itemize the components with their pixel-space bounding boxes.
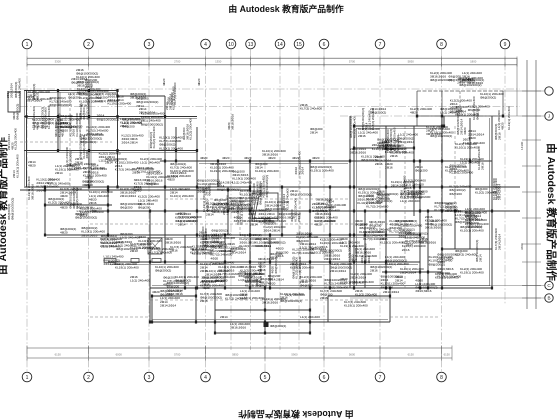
svg-text:2: 2 xyxy=(87,42,90,48)
svg-text:KL19(1) 200x400: KL19(1) 200x400 xyxy=(15,154,19,178)
wall inner line y285.5 xyxy=(152,285,490,287)
beam annotation xyxy=(475,187,497,195)
beam vertical x282 xyxy=(281,187,283,235)
wall inner line y128.5 xyxy=(356,128,444,130)
column at (350,187) xyxy=(349,186,351,189)
svg-text:Φ8@100/200(2): Φ8@100/200(2) xyxy=(10,198,14,220)
beam annotation xyxy=(68,112,82,136)
beam vertical x354 xyxy=(353,126,355,288)
svg-text:2Φ14;2Φ14: 2Φ14;2Φ14 xyxy=(398,140,414,144)
beam annotation xyxy=(203,233,227,248)
svg-text:Φ6@200: Φ6@200 xyxy=(120,206,133,210)
beam annotation xyxy=(262,297,286,305)
column at (176,161) xyxy=(175,160,177,163)
stair landing beam xyxy=(252,218,278,220)
beam annotation xyxy=(206,202,230,217)
wall far-right vertical strip xyxy=(526,60,528,309)
beam annotation xyxy=(437,253,459,264)
column at (228,211) xyxy=(227,210,229,213)
beam annotation xyxy=(229,196,253,211)
column at (414,161) xyxy=(413,160,415,163)
beam horizontal y211 xyxy=(90,210,520,212)
beam annotation xyxy=(85,78,109,93)
svg-text:2Φ16: 2Φ16 xyxy=(375,162,383,166)
grid bubble axis 6 bottom xyxy=(319,372,329,382)
svg-text:2Φ16: 2Φ16 xyxy=(367,255,371,263)
beam annotation xyxy=(54,113,65,137)
svg-text:3Φ16;3Φ16: 3Φ16;3Φ16 xyxy=(68,150,72,166)
svg-text:KL19(1) 200x400: KL19(1) 200x400 xyxy=(434,208,458,212)
column at (420,211) xyxy=(419,210,421,213)
wall inner line y92.5 xyxy=(26,92,117,94)
beam vertical x390 xyxy=(389,288,391,322)
beam annotation xyxy=(350,272,372,280)
svg-text:2Φ14;2Φ14: 2Φ14;2Φ14 xyxy=(122,141,138,145)
grid bubble axis 4 bottom xyxy=(201,372,211,382)
beam annotation xyxy=(459,76,483,87)
beam annotation xyxy=(217,180,239,191)
svg-text:2Φ14;2Φ14: 2Φ14;2Φ14 xyxy=(383,290,399,294)
svg-text:Φ6@200: Φ6@200 xyxy=(468,108,481,112)
svg-text:2Φ14;2Φ14: 2Φ14;2Φ14 xyxy=(354,246,358,262)
grid bubble axis 2 bottom xyxy=(84,372,94,382)
svg-text:L1(1) 240x400: L1(1) 240x400 xyxy=(140,161,160,165)
beam annotation xyxy=(170,162,194,173)
beam vertical x225 xyxy=(224,235,226,288)
beam annotation xyxy=(472,96,479,120)
beam annotation xyxy=(245,280,267,288)
svg-text:2Φ14: 2Φ14 xyxy=(263,244,271,248)
svg-text:KL19(1) 200x400: KL19(1) 200x400 xyxy=(507,106,511,130)
svg-text:KL10(1) 200x400: KL10(1) 200x400 xyxy=(455,146,479,150)
beam annotation xyxy=(211,229,235,244)
svg-text:3Φ16;3Φ16: 3Φ16;3Φ16 xyxy=(426,132,442,136)
column at (225,288) xyxy=(224,287,226,290)
beam annotation xyxy=(377,138,399,149)
column at (386,262) xyxy=(385,261,387,264)
svg-text:KL2(2) 200x400: KL2(2) 200x400 xyxy=(189,118,193,140)
beam annotation xyxy=(445,202,461,213)
beam annotation xyxy=(381,275,405,290)
svg-text:15: 15 xyxy=(296,42,302,48)
beam annotation xyxy=(457,77,473,85)
dimension line top xyxy=(27,57,517,59)
beam annotation xyxy=(75,157,83,165)
beam annotation xyxy=(380,237,404,245)
wall inner line y319.5 xyxy=(152,319,388,321)
beam annotation xyxy=(455,209,477,224)
beam annotation xyxy=(201,226,208,250)
grid bubble axis J right xyxy=(545,112,553,120)
column at (442,187) xyxy=(441,186,443,189)
beam annotation xyxy=(296,232,318,243)
wall inner line y118.5 xyxy=(26,118,197,120)
svg-text:KL7(3) 240x600: KL7(3) 240x600 xyxy=(214,202,236,206)
beam annotation xyxy=(146,171,170,186)
svg-text:KL7(3) 240x600: KL7(3) 240x600 xyxy=(300,107,322,111)
beam annotation xyxy=(122,133,144,144)
svg-text:2Φ14;2Φ14: 2Φ14;2Φ14 xyxy=(160,304,176,308)
svg-text:4Φ20: 4Φ20 xyxy=(152,290,160,294)
beam annotation xyxy=(248,209,270,220)
column at (492,211) xyxy=(491,210,493,213)
beam annotation xyxy=(300,275,322,283)
beam annotation xyxy=(250,219,274,227)
svg-text:2Φ16: 2Φ16 xyxy=(480,162,484,170)
secondary beam dashed x300 xyxy=(299,161,301,288)
svg-text:2Φ14: 2Φ14 xyxy=(478,254,482,262)
secondary beam dashed x70 xyxy=(69,88,71,187)
svg-text:4Φ20: 4Φ20 xyxy=(200,156,208,160)
column at (354,126) xyxy=(353,125,355,128)
svg-text:KL2(2) 200x400: KL2(2) 200x400 xyxy=(75,187,79,209)
beam annotation xyxy=(271,257,278,273)
svg-text:2Φ16: 2Φ16 xyxy=(200,299,208,303)
axis line 15 xyxy=(298,49,300,350)
column at (250,190) xyxy=(249,189,251,192)
beam horizontal y161 xyxy=(160,160,492,162)
beam annotation xyxy=(50,96,72,107)
beam annotation xyxy=(450,99,472,114)
svg-text:4Φ20: 4Φ20 xyxy=(85,183,93,187)
svg-text:4Φ20: 4Φ20 xyxy=(268,156,276,160)
beam annotation xyxy=(215,275,235,283)
grid bubble axis 3 top xyxy=(144,39,154,49)
annotation left edge xyxy=(6,83,13,98)
beam annotation xyxy=(210,245,232,256)
beam annotation xyxy=(292,248,314,256)
svg-text:6150: 6150 xyxy=(408,352,415,356)
beam annotation xyxy=(468,129,484,140)
column at (185,288) xyxy=(184,287,186,290)
beam annotation xyxy=(314,215,338,226)
svg-text:4Φ20: 4Φ20 xyxy=(437,260,445,264)
beam annotation xyxy=(192,244,216,255)
column at (197,262) xyxy=(196,261,198,264)
beam annotation xyxy=(101,234,121,249)
beam annotation xyxy=(385,255,409,266)
beam annotation xyxy=(60,227,76,235)
beam horizontal y310 xyxy=(215,309,310,311)
beam annotation xyxy=(358,187,382,198)
beam annotation xyxy=(445,165,469,173)
beam annotation xyxy=(83,166,107,177)
beam annotation xyxy=(466,217,482,228)
beam annotation xyxy=(370,265,392,273)
svg-text:2Φ14;2Φ14: 2Φ14;2Φ14 xyxy=(497,234,501,250)
svg-text:2Φ16: 2Φ16 xyxy=(358,134,366,138)
beam annotation xyxy=(239,233,263,248)
column at (165,116.5) xyxy=(164,115,166,118)
beam annotation xyxy=(150,247,174,255)
svg-text:Φ6@200: Φ6@200 xyxy=(381,285,394,289)
beam annotation xyxy=(480,92,504,100)
grid bubble axis C right xyxy=(545,281,553,289)
svg-text:10: 10 xyxy=(228,42,234,48)
column at (197,150.5) xyxy=(196,149,198,152)
column at (354,288) xyxy=(353,287,355,290)
beam vertical x310 xyxy=(309,161,311,333)
beam annotation xyxy=(350,280,374,284)
svg-text:Φ8@100/200(2): Φ8@100/200(2) xyxy=(459,83,481,87)
column at (428,211) xyxy=(427,210,429,213)
column at (108,187) xyxy=(107,186,109,189)
column at (365,262) xyxy=(364,261,366,264)
svg-text:Φ6@200: Φ6@200 xyxy=(449,192,462,196)
column at (117.5,90.5) xyxy=(116,89,118,92)
beam vertical x197 xyxy=(196,127,198,288)
column at (428,288) xyxy=(427,287,429,290)
axis line 3 xyxy=(148,49,150,372)
beam annotation xyxy=(404,179,428,194)
beam annotation xyxy=(460,267,484,275)
beam annotation xyxy=(138,235,162,250)
beam annotation xyxy=(211,257,235,265)
svg-text:KL10(1) 200x400: KL10(1) 200x400 xyxy=(359,230,383,234)
beam annotation xyxy=(324,278,348,289)
svg-text:KL19(1) 200x400: KL19(1) 200x400 xyxy=(344,304,368,308)
beam annotation xyxy=(312,202,334,213)
beam annotation xyxy=(240,265,264,276)
beam annotation xyxy=(108,94,132,105)
svg-text:KL19(1) 200x400: KL19(1) 200x400 xyxy=(450,171,474,175)
beam horizontal y262 xyxy=(108,261,420,263)
svg-text:KL10(1) 200x400: KL10(1) 200x400 xyxy=(211,260,235,264)
svg-text:2Φ14: 2Φ14 xyxy=(297,214,301,222)
column at (250,187) xyxy=(249,186,251,189)
column at (108,190) xyxy=(107,189,109,192)
svg-text:KL2(2) 200x400: KL2(2) 200x400 xyxy=(138,246,160,250)
beam annotation xyxy=(415,165,428,173)
column at (310,161) xyxy=(309,160,311,163)
svg-text:2Φ14: 2Φ14 xyxy=(178,222,186,226)
beam annotation xyxy=(359,223,383,234)
beam annotation xyxy=(386,127,400,151)
beam annotation xyxy=(100,237,124,248)
column at (386,187) xyxy=(385,186,387,189)
beam annotation xyxy=(382,140,404,151)
svg-text:2Φ14;2Φ14: 2Φ14;2Φ14 xyxy=(26,98,42,102)
grid bubble axis 14 top xyxy=(275,39,285,49)
column at (108,235) xyxy=(107,234,109,237)
beam annotation xyxy=(415,278,437,293)
svg-text:6150: 6150 xyxy=(55,352,62,356)
beam annotation xyxy=(310,165,334,173)
beam annotation xyxy=(32,106,39,130)
svg-text:Φ6@200: Φ6@200 xyxy=(300,284,313,288)
column at (386,211) xyxy=(385,210,387,213)
beam annotation xyxy=(282,188,289,210)
beam annotation xyxy=(138,195,160,210)
column at (270,288) xyxy=(269,287,271,290)
svg-text:2Φ16: 2Φ16 xyxy=(390,154,398,158)
column at (196,296) xyxy=(195,295,197,298)
grid bubble axis 6 top xyxy=(319,39,329,49)
secondary beam dashed y142 xyxy=(20,141,112,143)
column at (45,205) xyxy=(44,204,46,207)
beam annotation xyxy=(48,178,70,186)
beam annotation xyxy=(48,197,70,205)
beam annotation xyxy=(36,178,60,193)
svg-text:KL2(2) 200x400: KL2(2) 200x400 xyxy=(355,293,377,297)
column at (310,288) xyxy=(309,287,311,290)
column at (330,288) xyxy=(329,287,331,290)
svg-text:4Φ20: 4Φ20 xyxy=(279,219,287,223)
beam annotation xyxy=(411,190,424,198)
beam annotation xyxy=(32,84,39,100)
beam annotation xyxy=(159,136,183,151)
beam horizontal y272 xyxy=(382,271,442,273)
svg-text:Φ8@200(2): Φ8@200(2) xyxy=(155,269,171,273)
svg-text:3600: 3600 xyxy=(520,243,524,250)
column at (89,90.5) xyxy=(88,89,90,92)
beam annotation xyxy=(270,252,283,260)
beam vertical x89 xyxy=(88,90,90,187)
beam annotation xyxy=(389,219,413,234)
beam annotation xyxy=(160,289,182,300)
svg-text:3Φ16;3Φ16: 3Φ16;3Φ16 xyxy=(165,241,181,245)
beam annotation xyxy=(238,271,258,282)
beam horizontal y205 xyxy=(45,204,112,206)
column at (196,288) xyxy=(195,287,197,290)
column at (150,322) xyxy=(149,321,151,324)
beam annotation xyxy=(410,107,432,115)
column at (196,322) xyxy=(195,321,197,324)
beam annotation xyxy=(79,135,90,159)
beam annotation xyxy=(76,68,100,79)
beam annotation xyxy=(167,82,178,104)
axis line 7 xyxy=(379,49,381,372)
grid bubble axis 7 bottom xyxy=(375,372,385,382)
svg-text:2Φ14: 2Φ14 xyxy=(310,131,318,135)
beam annotation xyxy=(383,290,399,294)
wall inner line x356.5 xyxy=(356,128,358,286)
column at (108,211) xyxy=(107,210,109,213)
beam annotation xyxy=(139,107,155,115)
svg-text:KL10(1) 200x400: KL10(1) 200x400 xyxy=(159,146,183,150)
column at (265,322) xyxy=(264,321,266,324)
svg-text:4Φ20: 4Φ20 xyxy=(61,129,65,137)
beam annotation xyxy=(324,254,340,262)
beam annotation xyxy=(376,192,398,203)
svg-text:5700: 5700 xyxy=(349,59,356,63)
beam annotation xyxy=(340,237,364,248)
svg-text:KL19(1) 200x400: KL19(1) 200x400 xyxy=(455,112,479,116)
beam annotation xyxy=(276,247,289,258)
svg-text:KL19(1) 200x400: KL19(1) 200x400 xyxy=(115,266,139,270)
beam annotation xyxy=(385,162,393,170)
svg-text:Φ8@100/200(2): Φ8@100/200(2) xyxy=(141,122,163,126)
svg-text:4Φ20: 4Φ20 xyxy=(197,78,201,86)
beam annotation xyxy=(65,147,72,167)
svg-text:4Φ20: 4Φ20 xyxy=(314,223,322,227)
svg-text:2Φ16: 2Φ16 xyxy=(320,296,328,300)
svg-text:2Φ14: 2Φ14 xyxy=(406,190,410,198)
svg-text:5850: 5850 xyxy=(232,352,239,356)
svg-text:Φ8@200(2): Φ8@200(2) xyxy=(15,104,19,120)
beam annotation xyxy=(74,162,96,170)
svg-text:2Φ14;2Φ14: 2Φ14;2Φ14 xyxy=(104,262,120,266)
svg-text:2Φ16: 2Φ16 xyxy=(91,171,99,175)
beam annotation xyxy=(163,276,185,287)
secondary beam dashed y317 xyxy=(90,316,150,318)
svg-text:L1(1) 240x400: L1(1) 240x400 xyxy=(232,180,252,184)
beam annotation xyxy=(310,127,323,135)
beam annotation xyxy=(230,247,246,255)
beam annotation xyxy=(155,265,179,273)
svg-text:KL7(3) 240x600: KL7(3) 240x600 xyxy=(408,195,430,199)
beam annotation xyxy=(349,116,356,138)
beam annotation xyxy=(291,257,302,279)
column at (265,333) xyxy=(264,332,266,335)
beam horizontal y249 xyxy=(442,248,492,250)
beam annotation xyxy=(212,203,234,214)
grid bubble axis 15 top xyxy=(294,39,304,49)
svg-text:2Φ14;2Φ14: 2Φ14;2Φ14 xyxy=(120,194,136,198)
svg-text:6150: 6150 xyxy=(444,352,451,356)
svg-text:KL2(2) 200x400: KL2(2) 200x400 xyxy=(371,108,375,130)
svg-text:5: 5 xyxy=(264,375,267,381)
wall inner line x24.5 xyxy=(24,90,26,186)
beam annotation xyxy=(60,121,82,132)
beam annotation xyxy=(120,117,142,128)
grid bubble axis 1 top xyxy=(22,39,32,49)
column at (228,190) xyxy=(227,189,229,192)
beam annotation xyxy=(85,176,93,187)
svg-text:KL19(1) 200x400: KL19(1) 200x400 xyxy=(460,271,484,275)
svg-text:L1(1) 240x400: L1(1) 240x400 xyxy=(120,236,140,240)
beam annotation xyxy=(435,272,459,280)
beam horizontal y116.5 xyxy=(24,116,197,118)
beam annotation xyxy=(60,187,82,198)
beam vertical x386 xyxy=(385,126,387,288)
column at (354,148) xyxy=(353,147,355,150)
axis line secondary top dash xyxy=(20,106,520,108)
beam annotation xyxy=(202,188,209,212)
svg-text:8: 8 xyxy=(440,42,443,48)
svg-text:Φ8@100/200(2): Φ8@100/200(2) xyxy=(320,248,342,252)
beam annotation xyxy=(28,90,52,101)
column at (58,150.5) xyxy=(57,149,59,152)
svg-text:4Φ20: 4Φ20 xyxy=(410,111,418,115)
grid bubble axis 2 top xyxy=(84,39,94,49)
beam annotation xyxy=(160,300,176,308)
beam annotation xyxy=(200,292,222,303)
beam annotation xyxy=(230,322,250,330)
beam horizontal y190 xyxy=(20,189,250,191)
column at (150,211) xyxy=(149,210,151,213)
beam vertical x444 xyxy=(443,116,445,126)
stair flight edge xyxy=(254,196,259,220)
svg-text:2Φ14: 2Φ14 xyxy=(301,167,305,175)
beam horizontal y288 xyxy=(150,287,492,289)
beam annotation xyxy=(320,289,342,300)
svg-text:2Φ14: 2Φ14 xyxy=(250,223,258,227)
svg-text:3: 3 xyxy=(148,375,151,381)
column at (442,126) xyxy=(441,125,443,128)
svg-text:4: 4 xyxy=(204,42,207,48)
column at (492,288) xyxy=(491,287,493,290)
svg-text:4Φ20: 4Φ20 xyxy=(222,156,230,160)
beam annotation xyxy=(263,237,285,248)
svg-text:KL19(1) 200x400: KL19(1) 200x400 xyxy=(239,244,263,248)
column at (150,262) xyxy=(149,261,151,264)
beam annotation xyxy=(344,300,368,308)
beam annotation xyxy=(390,147,414,158)
beam annotation xyxy=(170,171,186,179)
column at (282,235) xyxy=(281,234,283,237)
svg-text:L1(1) 240x400: L1(1) 240x400 xyxy=(130,279,150,283)
